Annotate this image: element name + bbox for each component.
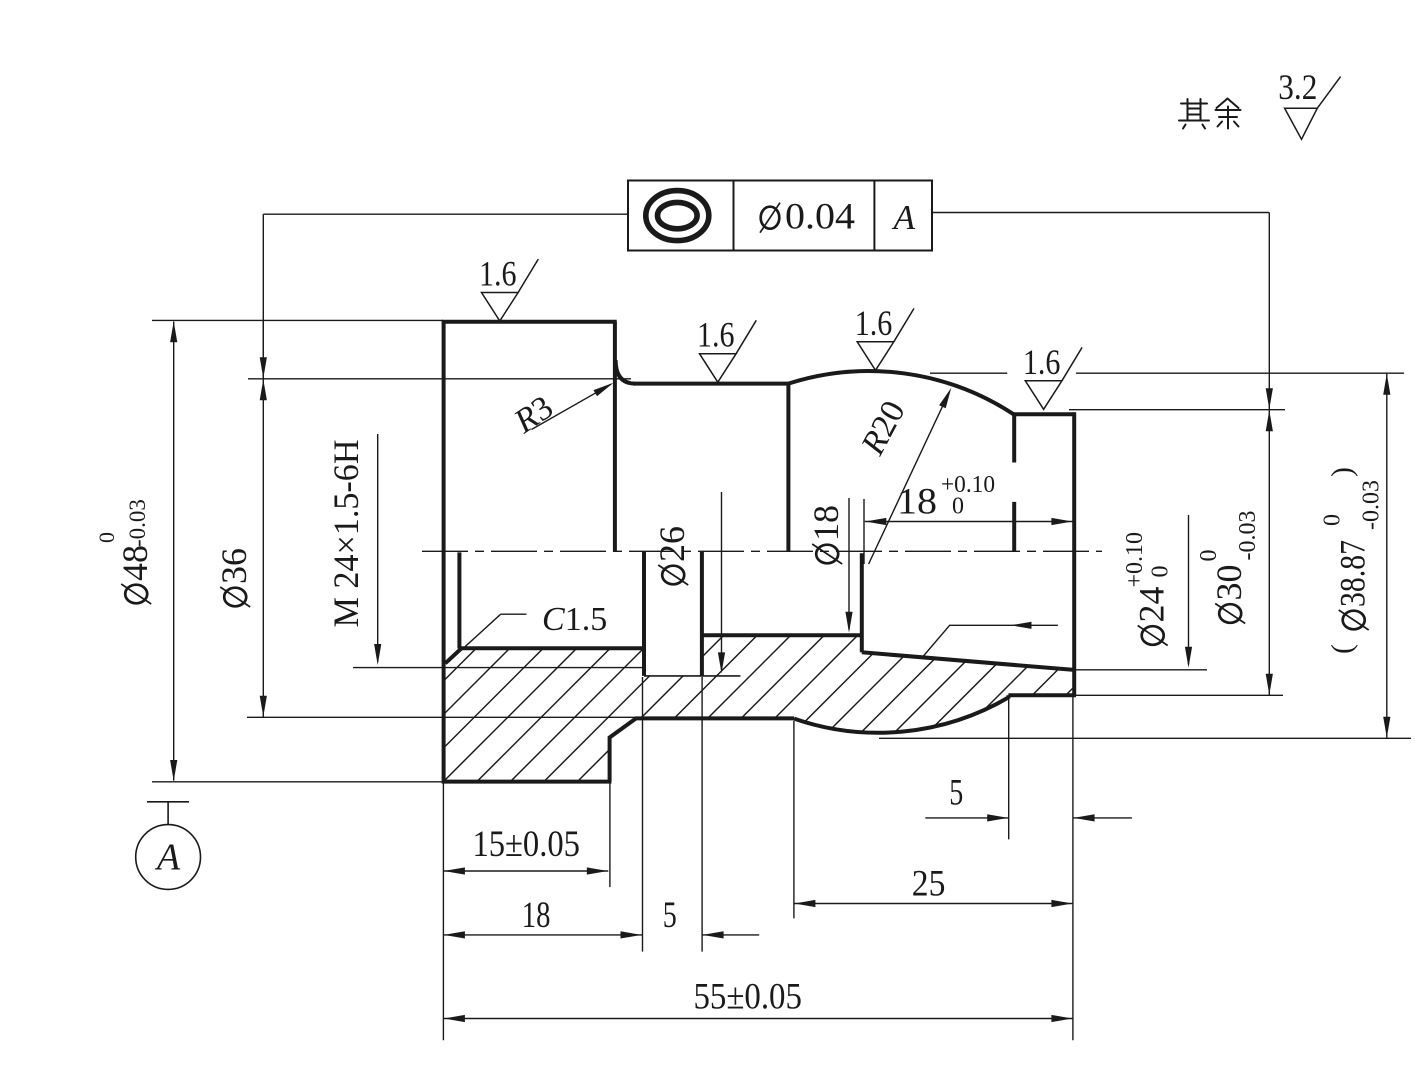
svg-text:26: 26: [652, 526, 692, 562]
ext line: 18/5 shared left: [642, 677, 644, 952]
outline: neck curve (bottom): [794, 698, 1008, 733]
ext line: phi48 top: [152, 319, 443, 321]
ext line: phi38.87 top a: [930, 372, 1007, 374]
svg-text:-0.03: -0.03: [125, 499, 150, 547]
FCF leader right horizontal: [932, 212, 1269, 214]
svg-text:A: A: [892, 198, 916, 237]
dimension 15 right arrow: [587, 867, 608, 874]
label phi30 0/-0.03: [1196, 511, 1261, 624]
dimension phi38.87 bottom arrow: [1383, 717, 1390, 738]
bore: thread minor diameter line: [459, 646, 644, 650]
FCF tolerance phi: [761, 207, 780, 229]
dimension 18 depth left arrow: [865, 518, 886, 525]
outline: flange bottom step face: [608, 737, 612, 782]
leader phi24 vertical: [1188, 515, 1190, 665]
dimension 25 right arrow: [1051, 900, 1072, 907]
label (phi38.87 0/-0.03): [1320, 467, 1385, 654]
bore: thread major diameter (thin): [353, 667, 644, 669]
ext line: phi30 top: [1069, 409, 1285, 411]
outline: R3 fillet: [616, 360, 635, 384]
dimension 15 left arrow: [444, 867, 465, 874]
svg-text:-0.03: -0.03: [1235, 511, 1261, 561]
dimension 18 depth right arrow: [1051, 518, 1072, 525]
outline: phi36 top surface: [633, 382, 790, 386]
ext line: phi36 bottom: [247, 716, 637, 718]
FCF divider 2: [873, 181, 875, 251]
svg-text:5: 5: [663, 895, 677, 936]
outline: neck-to-phi30 step: [1006, 695, 1010, 698]
leader phi18 vertical: [848, 498, 850, 630]
svg-text:M 24×1.5-6H: M 24×1.5-6H: [326, 440, 366, 628]
datum A stem: [167, 802, 169, 825]
ext line: 18 depth left: [863, 499, 865, 564]
svg-text:30: 30: [1209, 565, 1249, 601]
dimension 55 right arrow: [1051, 1015, 1072, 1022]
svg-text:0: 0: [1148, 566, 1174, 578]
dimension right 5 right tail: [1073, 817, 1132, 819]
label phi24 +0.10/0: [1122, 532, 1174, 646]
leader M24 arrow: [374, 644, 381, 665]
outline: flange top (phi48): [442, 320, 617, 324]
svg-text:18: 18: [806, 505, 846, 541]
leader cone diagonal: [923, 625, 950, 657]
leader cone arrow: [1011, 622, 1032, 629]
outline: phi30 bottom surface: [1008, 693, 1076, 697]
outline: bottom step bevel (R3): [609, 718, 636, 738]
label M24x1.5-6H thread: [326, 440, 366, 628]
svg-text:): ): [1326, 467, 1359, 477]
dimension phi48 top arrow: [170, 321, 177, 342]
surface finish 3.2 (default): [1278, 67, 1340, 139]
svg-text:55±0.05: 55±0.05: [693, 976, 802, 1017]
leader phi24 arrow: [1185, 647, 1192, 668]
leader R20 line: [869, 392, 949, 564]
dimension 55 line: [443, 1018, 1073, 1020]
dimension phi36 upper arrow (down): [260, 357, 267, 378]
leader phi18 arrow: [845, 612, 852, 633]
dimension 18 line: [443, 934, 642, 936]
surface finish 1.6 on phi30: [1023, 342, 1082, 410]
leader M24 vertical: [377, 434, 379, 662]
bore: phi18 hole line: [702, 633, 862, 637]
label phi36: [214, 548, 254, 607]
svg-text:0: 0: [1196, 550, 1222, 562]
dimension phi30 line: [1268, 410, 1270, 696]
dimension 18 depth line: [865, 521, 1073, 523]
svg-text:+0.10: +0.10: [941, 472, 995, 498]
leader C1.5 horizontal: [501, 613, 527, 615]
dimension 15 line: [443, 870, 608, 872]
dimension phi36 bottom arrow: [260, 696, 267, 717]
ext line: 55 left: [442, 783, 444, 1040]
svg-text:-0.03: -0.03: [1359, 480, 1385, 530]
outline: flange bottom (phi48): [442, 780, 612, 784]
dimension 5 arrow: [703, 931, 724, 938]
dimension phi36 line: [262, 320, 264, 717]
dimension phi38.87 top arrow: [1383, 374, 1390, 395]
text 其余 (rest surfaces): [1179, 99, 1241, 129]
svg-text:0: 0: [94, 532, 119, 543]
ext line: phi48 bottom: [152, 781, 443, 783]
dimension phi48 bottom arrow: [170, 760, 177, 781]
svg-text:+0.10: +0.10: [1122, 532, 1148, 588]
outline: step face at hump end (upper): [1012, 414, 1016, 462]
svg-text:1.6: 1.6: [479, 254, 517, 294]
ext line: right 5: [1008, 697, 1010, 840]
dimension 55 left arrow: [444, 1015, 465, 1022]
svg-text:25: 25: [912, 864, 946, 905]
ext line: phi38.87 bottom: [879, 737, 1411, 739]
leader cone horizontal: [950, 624, 1058, 626]
dimension right 5 right arrow: [1074, 814, 1095, 821]
FCF leader left vertical: [262, 214, 264, 379]
label phi18: [806, 505, 846, 564]
svg-text:38.87: 38.87: [1333, 540, 1373, 607]
surface finish 1.6 on R20: [855, 303, 914, 371]
svg-text:24: 24: [1132, 587, 1172, 623]
bore: chamfer lip edge: [457, 552, 461, 648]
bore: phi26 groove left wall: [642, 551, 646, 676]
svg-text:18: 18: [522, 895, 551, 936]
FCF leader right arrow: [1266, 388, 1273, 409]
FCF leader right vertical: [1268, 213, 1270, 410]
bore: phi18/cone step face: [860, 553, 864, 652]
dimension phi30 bottom arrow: [1266, 674, 1273, 695]
outline: phi30 top surface: [1012, 412, 1076, 416]
outline: right end face: [1072, 412, 1076, 695]
ext line: phi24 cone end: [1075, 669, 1207, 671]
surface finish 1.6 on flange: [479, 254, 538, 322]
outline: phi36 bottom surface: [635, 716, 794, 720]
surface finish 1.6 on phi36: [697, 315, 756, 383]
dimension 25 line: [794, 903, 1073, 905]
svg-text:1.6: 1.6: [1023, 342, 1061, 382]
dimension phi38.87 line: [1386, 373, 1388, 738]
outline: step face at hump end (lower): [1012, 502, 1016, 551]
leader R3 arrow: [594, 383, 614, 397]
ext line: 15 right: [609, 783, 611, 887]
ext line: phi30 bottom: [1076, 694, 1283, 696]
dimension phi48 line: [173, 322, 175, 781]
FCF divider 1: [733, 181, 735, 251]
svg-text:0: 0: [1320, 514, 1346, 526]
centerline (axis): [422, 550, 1102, 552]
ext line: phi38.87 top b: [1076, 372, 1404, 374]
svg-text:1.6: 1.6: [855, 303, 893, 343]
svg-text:0.04: 0.04: [785, 197, 855, 238]
datum A circle: [136, 825, 201, 890]
dimension right 5 left tail: [925, 817, 1008, 819]
ext line: 25 left: [793, 721, 795, 918]
ext line: phi36 top: [248, 378, 631, 380]
ext line: 55 right: [1072, 697, 1074, 1041]
leader R3 line: [532, 384, 612, 429]
bore: C1.5 chamfer edge: [445, 649, 460, 663]
svg-text:15±0.05: 15±0.05: [472, 824, 580, 865]
label phi26: [652, 526, 692, 585]
outline: R20 hump (top): [788, 371, 1013, 414]
dimension right 5 left arrow: [987, 814, 1008, 821]
label R20: [854, 395, 913, 462]
bore: phi24 cone line: [862, 652, 1073, 670]
svg-text:36: 36: [214, 548, 254, 584]
svg-text:1.6: 1.6: [697, 315, 735, 355]
outline: phi36 right step edge: [786, 384, 790, 552]
dimension 18 left arrow: [444, 931, 465, 938]
bore: phi26 groove bottom + extension: [644, 675, 740, 677]
leader phi26 arrow: [718, 652, 725, 673]
dimension 25 left arrow: [794, 900, 815, 907]
svg-text:18: 18: [897, 482, 937, 523]
svg-text:48: 48: [115, 545, 155, 581]
dimension phi36 upper arrow (up): [260, 379, 267, 400]
leader phi26 vertical: [721, 492, 723, 670]
FCF leader left horizontal: [263, 213, 628, 215]
svg-text:C1.5: C1.5: [542, 601, 607, 638]
svg-text:0: 0: [952, 494, 964, 520]
FCF concentricity symbol inner: [658, 202, 698, 228]
leader R20 arrow: [939, 388, 951, 409]
label R3: [507, 389, 560, 441]
svg-text:3.2: 3.2: [1278, 67, 1317, 107]
outline: left end face: [442, 320, 446, 783]
dimension phi30 top arrow: [1266, 410, 1273, 431]
dimension 18 right arrow: [621, 931, 642, 938]
ext line: 5 right: [701, 677, 703, 952]
bore: phi26 groove right wall: [700, 551, 704, 676]
outline: flange right face edge: [613, 322, 617, 552]
dimension 5 tail: [702, 934, 759, 936]
label phi48 0/-0.03: [94, 499, 155, 604]
svg-text:(: (: [1326, 644, 1359, 654]
svg-text:5: 5: [949, 772, 963, 813]
datum A tee bar: [147, 801, 189, 803]
svg-text:A: A: [154, 837, 181, 879]
FCF box: [628, 181, 932, 251]
FCF concentricity symbol outer: [646, 191, 709, 241]
leader C1.5 diagonal: [448, 614, 501, 662]
